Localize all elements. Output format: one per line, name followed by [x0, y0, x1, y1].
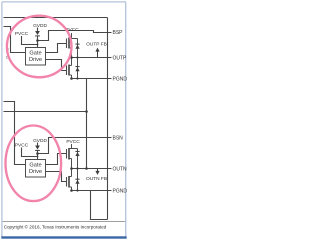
wire pgnd2 drop — [91, 191, 108, 220]
node junction dot pvcc tee top — [37, 44, 39, 46]
diode body Q3 — [75, 149, 79, 169]
copyright bar top line — [3, 221, 126, 223]
node OUTN FB label and arrow — [86, 169, 107, 183]
svg-text:Drive: Drive — [29, 57, 42, 63]
svg-text:OUTP: OUTP — [113, 55, 128, 61]
node junction dot mid — [85, 110, 88, 113]
node junction dot outn — [85, 167, 88, 170]
highlight ellipse bottom — [6, 126, 62, 202]
wire gate drive2 out2 — [46, 172, 67, 182]
node junction dot bootstrap bottom — [36, 152, 39, 155]
diode body Q1 — [75, 39, 79, 58]
wire feedback drop — [86, 79, 88, 169]
wire OUTN line — [72, 168, 112, 170]
svg-text:Copyright © 2016, Texas Instru: Copyright © 2016, Texas Instruments Inco… — [4, 224, 107, 230]
transistor Q2 low-side top — [67, 58, 72, 79]
svg-text:BSP: BSP — [113, 30, 124, 36]
svg-text:PGND: PGND — [113, 188, 128, 194]
node junction dots PGND2 — [70, 189, 73, 192]
highlight ellipse top — [7, 16, 72, 78]
node OUTP FB label and arrow — [86, 41, 107, 57]
wire top rail — [4, 17, 108, 19]
node junction dot bootstrap top — [36, 39, 39, 42]
frame border light blue — [2, 2, 126, 237]
node junction dot pvcc tee bottom — [37, 156, 39, 158]
svg-text:PVCC: PVCC — [15, 143, 29, 149]
svg-text:PVCC: PVCC — [66, 139, 80, 145]
svg-text:OUTN: OUTN — [113, 166, 128, 172]
wire gvdd stub bottom — [37, 143, 39, 146]
wire bootstrap to BSP — [38, 31, 112, 41]
wire OUTP line — [72, 57, 112, 59]
wire diode to gate drive bottom — [37, 151, 39, 160]
wire left input stub top — [4, 27, 26, 53]
svg-text:BSN: BSN — [113, 135, 124, 141]
wire diode to gate drive — [37, 36, 39, 48]
svg-text:OUTN FB: OUTN FB — [86, 176, 107, 182]
wire mid horizontal — [4, 111, 87, 113]
wire gvdd stub — [37, 28, 39, 32]
wire left input stub bottom — [4, 102, 26, 165]
node junction dots OUTN — [70, 167, 73, 170]
svg-text:OUTP FB: OUTP FB — [86, 41, 107, 47]
transistor Q4 low-side bottom — [67, 169, 72, 191]
wire gate drive out1 — [46, 44, 67, 53]
svg-text:Drive: Drive — [29, 169, 42, 175]
diode body Q4 — [75, 169, 79, 191]
footer blue bar — [1, 236, 126, 238]
diode body Q2 — [75, 58, 79, 79]
node junction dots PGND — [70, 77, 73, 80]
wire PGND2 line — [72, 190, 112, 192]
wire pvcc feed top — [22, 36, 38, 45]
diode D2 bootstrap bottom — [35, 146, 40, 151]
wire bootstrap to BSN — [38, 138, 112, 154]
wire PGND line — [72, 78, 112, 80]
svg-text:Gate: Gate — [29, 50, 41, 56]
svg-text:Gate: Gate — [29, 162, 41, 168]
transistor Q1 high-side top — [67, 33, 78, 58]
wire gate drive2 out1 — [46, 154, 67, 165]
node junction dots OUTP — [70, 56, 73, 59]
diode D1 bootstrap top — [35, 31, 40, 36]
transistor Q3 high-side bottom — [67, 144, 78, 169]
svg-text:GVDD: GVDD — [33, 23, 47, 29]
svg-text:PVCC: PVCC — [15, 31, 29, 37]
op-amp U2 gate drive box bottom — [26, 160, 46, 178]
node right bus — [107, 18, 109, 220]
wire gate drive out2 — [46, 60, 67, 71]
svg-text:GVDD: GVDD — [33, 138, 47, 144]
svg-text:PGND: PGND — [113, 76, 128, 82]
wire pvcc feed bottom — [22, 148, 38, 157]
op-amp U1 gate drive box top — [26, 48, 46, 66]
